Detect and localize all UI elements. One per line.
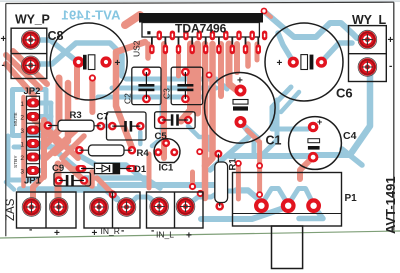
svg-text:2: 2: [20, 115, 24, 122]
svg-text:TDA7496: TDA7496: [175, 22, 227, 36]
svg-text:1: 1: [20, 101, 24, 108]
svg-text:JP1: JP1: [24, 176, 42, 187]
svg-text:JP2: JP2: [24, 86, 41, 97]
svg-text:+: +: [54, 228, 60, 239]
svg-text:1: 1: [20, 142, 24, 149]
svg-text:-: -: [389, 61, 392, 72]
svg-text:+: +: [388, 35, 394, 46]
svg-text:AVT-1491: AVT-1491: [383, 176, 398, 234]
svg-text:+: +: [237, 76, 243, 87]
svg-text:-: -: [29, 225, 32, 236]
svg-text:IN_R: IN_R: [101, 226, 120, 236]
svg-text:C4: C4: [343, 130, 357, 142]
svg-text:R4: R4: [137, 148, 150, 159]
svg-text:2: 2: [20, 155, 24, 162]
svg-text:R1: R1: [228, 158, 239, 171]
svg-text:ZAS: ZAS: [5, 198, 17, 221]
svg-text:+: +: [317, 117, 322, 127]
svg-text:C6: C6: [336, 86, 353, 101]
svg-text:C8: C8: [48, 29, 64, 43]
svg-text:R3: R3: [70, 110, 82, 121]
svg-text:+: +: [92, 228, 98, 239]
svg-text:+: +: [115, 58, 121, 69]
svg-text:AVT-1491: AVT-1491: [61, 8, 120, 23]
svg-text:+: +: [277, 58, 283, 69]
svg-text:WY_L: WY_L: [352, 13, 386, 27]
svg-text:3: 3: [20, 169, 24, 176]
svg-text:C1: C1: [266, 134, 282, 148]
svg-text:+: +: [1, 34, 7, 45]
svg-text:-: -: [121, 226, 124, 237]
svg-text:IN_L: IN_L: [156, 230, 174, 240]
svg-text:+: +: [186, 231, 192, 242]
svg-text:C5: C5: [155, 131, 168, 142]
svg-text:C7: C7: [97, 112, 109, 123]
svg-text:D1: D1: [134, 164, 147, 175]
svg-text:3: 3: [20, 128, 24, 135]
svg-text:-: -: [151, 226, 154, 237]
svg-text:C2: C2: [123, 93, 133, 104]
svg-text:C3: C3: [162, 88, 172, 99]
svg-text:P1: P1: [345, 193, 358, 204]
svg-text:MUTE: MUTE: [13, 112, 19, 126]
svg-text:C9: C9: [52, 163, 64, 174]
svg-text:US2: US2: [132, 40, 142, 57]
svg-text:STBY: STBY: [13, 155, 19, 168]
svg-text:WY_P: WY_P: [15, 13, 50, 27]
svg-text:IC1: IC1: [159, 163, 175, 174]
svg-text:-: -: [2, 60, 5, 71]
